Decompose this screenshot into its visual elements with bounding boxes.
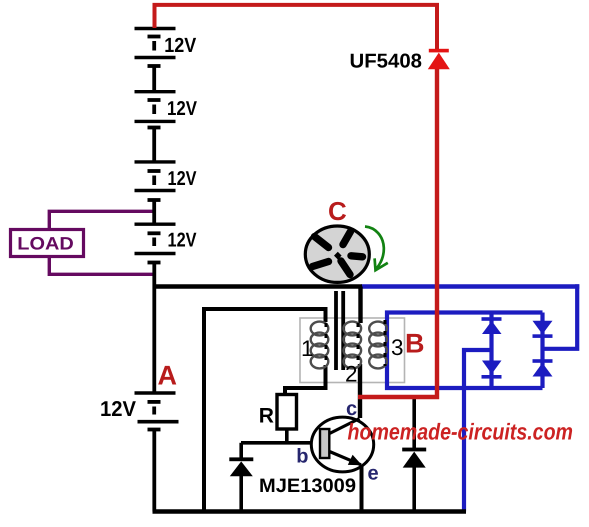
wire D3 anode lead down to bottom bus xyxy=(412,467,416,512)
svg-text:12V: 12V xyxy=(168,230,198,252)
transformer B outline box xyxy=(300,318,405,383)
svg-text:12V: 12V xyxy=(167,98,198,120)
wire bottom black bus xyxy=(153,509,467,514)
wire battery A negative to bottom bus xyxy=(152,430,156,512)
svg-text:3: 3 xyxy=(391,335,404,360)
wire D3 cathode lead from red collector node xyxy=(412,398,416,449)
wire blue right-edge vertical down to bridge + node xyxy=(543,284,578,349)
wire red positive from battery stack top to diode xyxy=(155,5,438,50)
svg-text:12V: 12V xyxy=(100,397,137,421)
battery B4 12V xyxy=(135,224,176,262)
wire base horizontal xyxy=(241,441,319,445)
diode bridge D-left-bottom (blue, pointing down) xyxy=(482,361,502,379)
diode bridge D-right-top (blue, pointing down) xyxy=(533,321,553,338)
svg-text:e: e xyxy=(368,463,379,485)
winding 1 xyxy=(311,322,329,369)
wire blue AC top rail to winding 3 top xyxy=(387,313,543,389)
svg-text:homemade-circuits.com: homemade-circuits.com xyxy=(348,419,574,445)
wire red from diode down to collector node xyxy=(358,66,437,397)
winding 2 xyxy=(344,322,362,369)
svg-text:LOAD: LOAD xyxy=(17,234,74,254)
battery B2 12V xyxy=(135,92,176,162)
winding 3 xyxy=(369,322,387,369)
transistor Q1 MJE13009 xyxy=(311,417,373,472)
diode UF5408 (red) xyxy=(428,49,450,70)
wire D1 cathode lead from base node xyxy=(239,443,243,459)
battery B1 12V xyxy=(135,29,176,92)
svg-text:c: c xyxy=(346,398,357,420)
svg-text:UF5408: UF5408 xyxy=(350,51,423,73)
wire blue left diode column xyxy=(489,313,493,389)
fan C (motor) xyxy=(305,226,369,282)
wire blue right diode column xyxy=(540,313,544,389)
svg-text:12V: 12V xyxy=(168,168,198,190)
wire blue top bus from transformer junction to top-right corner xyxy=(361,284,579,288)
diode bridge D-left-top (blue, pointing up) xyxy=(482,317,502,334)
diode D1 (black, near base) xyxy=(229,457,253,476)
transformer core xyxy=(334,291,338,370)
wire battery stack bottom to main bus xyxy=(152,262,156,392)
diode bridge D-right-bottom (blue, pointing up) xyxy=(533,359,553,376)
resistor R xyxy=(277,395,297,430)
diode D3 (black, right of transistor) xyxy=(402,448,426,468)
battery B3 12V xyxy=(135,162,176,224)
wire winding2 top lead to bus xyxy=(358,287,362,324)
green rotation arrow xyxy=(365,227,384,270)
wire resistor bottom lead xyxy=(285,429,289,443)
battery A 12V xyxy=(135,393,179,430)
svg-text:1: 1 xyxy=(301,336,314,361)
LOAD box xyxy=(11,230,84,257)
wire winding2 bottom lead to collector xyxy=(358,364,362,418)
wire emitter lead down to bus xyxy=(360,466,364,512)
svg-text:2: 2 xyxy=(345,362,358,387)
wire D1 anode lead down to bottom bus xyxy=(239,476,243,512)
svg-text:B: B xyxy=(405,328,425,358)
LOAD wires (purple) xyxy=(49,211,154,228)
wire blue negative output from left column mid node down to bottom bus xyxy=(464,350,492,512)
svg-text:A: A xyxy=(158,361,178,391)
svg-text:R: R xyxy=(259,405,274,428)
svg-text:b: b xyxy=(296,446,308,468)
svg-text:C: C xyxy=(328,196,347,226)
svg-text:MJE13009: MJE13009 xyxy=(259,475,356,497)
wire winding1 bottom to resistor R xyxy=(285,365,326,395)
svg-text:12V: 12V xyxy=(164,34,196,57)
wire winding1 top feed horizontal xyxy=(204,309,326,512)
wire main black bus xyxy=(153,284,363,288)
